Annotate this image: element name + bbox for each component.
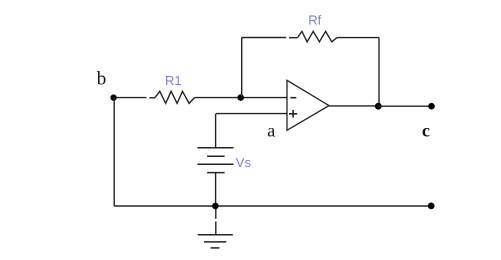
svg-text:Vs: Vs xyxy=(236,155,252,170)
node junction inverting input xyxy=(237,94,244,101)
battery Vs xyxy=(197,148,233,173)
svg-text:a: a xyxy=(267,121,275,141)
resistor R1 xyxy=(155,91,195,103)
wire battery to bottom rail xyxy=(215,173,217,206)
op-amp U1 xyxy=(287,80,329,130)
wire op-amp output xyxy=(329,105,378,107)
wire feedback left vertical xyxy=(241,38,243,98)
node b xyxy=(110,94,116,100)
wire Rf to right vertical xyxy=(337,38,379,107)
svg-text:b: b xyxy=(97,68,107,89)
ground xyxy=(198,235,233,248)
wire feedback top xyxy=(242,37,298,39)
resistor Rf xyxy=(298,31,338,41)
wire output to terminal c xyxy=(378,105,431,107)
node output junction xyxy=(375,103,382,110)
wire ground stub xyxy=(215,209,217,235)
svg-text:R1: R1 xyxy=(165,73,182,88)
wire left vertical from b xyxy=(113,98,115,206)
node terminal c xyxy=(428,103,435,110)
wire noninverting input xyxy=(216,114,287,148)
op-amp plus pin mark xyxy=(289,110,297,118)
svg-text:Rf: Rf xyxy=(308,13,321,28)
wire R1 to inverting input xyxy=(195,97,288,99)
node terminal bottom right xyxy=(428,203,435,210)
node ground junction xyxy=(212,203,219,210)
wire b to R1 xyxy=(116,97,155,99)
svg-text:c: c xyxy=(422,120,430,140)
wire bottom rail xyxy=(114,205,428,207)
op-amp minus pin mark xyxy=(291,97,297,99)
